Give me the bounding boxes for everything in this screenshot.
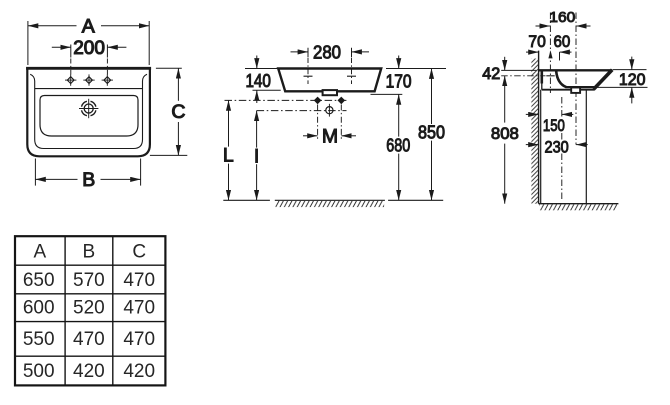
table outer border <box>15 236 165 385</box>
table row line 1 <box>15 264 165 266</box>
svg-text:520: 520 <box>73 298 105 319</box>
svg-text:L: L <box>223 145 234 167</box>
bowl front wedge (thick diagonal) <box>594 70 613 90</box>
basin outer silhouette (front view) <box>27 68 150 156</box>
dimension 150 <box>526 113 539 115</box>
MIDDLE VIEW <box>223 43 446 208</box>
TABLE <box>15 236 165 385</box>
svg-text:280: 280 <box>313 43 341 63</box>
bowl bottom interior line <box>566 86 595 88</box>
dimension A <box>28 21 149 65</box>
svg-text:C: C <box>132 242 146 263</box>
svg-text:170: 170 <box>386 72 412 92</box>
dimension 170 <box>386 68 446 70</box>
table column line A|B <box>64 236 66 385</box>
svg-text:A: A <box>34 242 47 263</box>
tap hole axis (vertical centreline) <box>549 13 551 94</box>
tap hole centre <box>83 74 94 85</box>
svg-text:42: 42 <box>482 65 500 83</box>
tap hole cross right <box>347 75 356 77</box>
svg-text:B: B <box>83 242 96 263</box>
fixing hole right (diamond) <box>338 97 344 103</box>
svg-text:500: 500 <box>23 361 55 382</box>
pedestal left line <box>540 90 542 204</box>
centreline left tap hole (elevation) <box>307 58 309 84</box>
extension line at 60 end <box>559 52 561 60</box>
table row line 4 <box>15 355 165 357</box>
ground hatching (side view) <box>539 204 617 210</box>
drain centreline (horizontal) <box>257 110 347 112</box>
dimension 280 <box>307 48 309 58</box>
ground line (side view) <box>539 203 619 205</box>
wall face line <box>538 51 540 204</box>
svg-text:160: 160 <box>549 9 575 26</box>
rim top thick line <box>539 69 613 71</box>
svg-text:650: 650 <box>23 270 55 291</box>
ground line hatched segment <box>275 199 385 201</box>
svg-text:I: I <box>254 146 259 168</box>
fixing hole leader left (vertical) <box>317 105 319 142</box>
tap hole cross (side view) <box>546 75 554 77</box>
bowl outline <box>40 96 138 137</box>
svg-text:60: 60 <box>554 33 571 51</box>
flange lower edge <box>541 84 543 90</box>
tap hole left <box>65 74 76 85</box>
drain hole (elevation) <box>326 107 333 114</box>
svg-text:680: 680 <box>386 135 410 155</box>
svg-text:850: 850 <box>418 123 445 143</box>
wall hatching <box>531 59 538 204</box>
table row line 3 <box>15 321 165 323</box>
svg-text:470: 470 <box>123 270 155 291</box>
overflow fitting box (side view) <box>571 88 580 93</box>
RIGHT VIEW <box>482 9 647 210</box>
fixing hole left (diamond) <box>315 97 321 103</box>
svg-text:420: 420 <box>73 361 105 382</box>
svg-text:570: 570 <box>73 270 105 291</box>
ground line left segment <box>223 199 270 201</box>
svg-text:420: 420 <box>123 361 155 382</box>
drain axis (vertical centreline) <box>575 13 577 145</box>
dimension I <box>256 111 258 148</box>
dimension 850 <box>431 69 433 125</box>
siphon axis (vertical centreline) <box>561 97 563 200</box>
dimension M <box>303 135 318 137</box>
shared arrowhead at tap axis (70/60) <box>548 50 552 58</box>
rim front edge line <box>35 88 143 90</box>
basin profile (front elevation) <box>278 69 381 92</box>
leader centreline to left tap hole <box>70 59 72 75</box>
dimension 140 <box>245 68 278 70</box>
dimension L <box>228 100 230 146</box>
centreline right tap hole (elevation) <box>351 58 353 84</box>
FRONT VIEW <box>26 16 187 192</box>
basin top edge thick line <box>26 67 151 70</box>
basin underside line <box>542 89 595 91</box>
overflow fitting box <box>323 90 337 95</box>
svg-text:C: C <box>171 101 185 123</box>
dimension 230 <box>526 144 539 146</box>
fixing holes centreline (horizontal) <box>225 99 347 101</box>
dimension 120 <box>613 69 647 71</box>
svg-text:70: 70 <box>528 33 545 51</box>
svg-text:808: 808 <box>491 125 519 143</box>
tap hole right <box>102 74 113 85</box>
dimension 680 <box>398 94 400 136</box>
svg-text:550: 550 <box>23 329 55 350</box>
basin inner rim outline <box>30 74 147 148</box>
svg-text:230: 230 <box>545 139 569 157</box>
drain symbol <box>79 99 98 118</box>
svg-text:M: M <box>322 126 338 148</box>
table column line B|C <box>112 236 114 385</box>
table row line 2 <box>15 293 165 295</box>
back fixing flange (black bar) <box>541 70 544 83</box>
dimension 808 <box>504 76 506 123</box>
svg-text:140: 140 <box>245 71 271 91</box>
ground line right segment <box>388 199 443 201</box>
dimension 200 <box>52 45 127 58</box>
svg-text:150: 150 <box>543 117 565 135</box>
svg-text:120: 120 <box>619 71 646 89</box>
dimension C <box>150 68 187 155</box>
svg-text:470: 470 <box>73 329 105 350</box>
svg-text:470: 470 <box>123 298 155 319</box>
svg-text:200: 200 <box>73 38 105 59</box>
svg-text:A: A <box>82 16 95 38</box>
pedestal right line <box>585 90 587 204</box>
svg-text:600: 600 <box>23 298 55 319</box>
dimension B <box>35 159 140 186</box>
fixing hole leader right (vertical) <box>340 105 342 142</box>
svg-text:470: 470 <box>123 329 155 350</box>
tap hole cross left <box>304 75 313 77</box>
bowl back interior curve <box>556 71 566 87</box>
svg-text:B: B <box>82 169 95 191</box>
leader centreline to right tap hole <box>106 59 108 75</box>
